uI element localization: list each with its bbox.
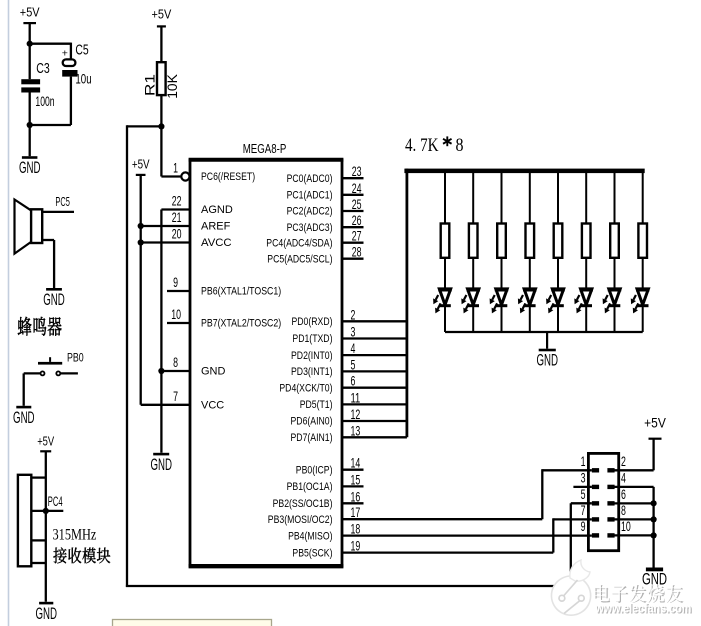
svg-text:21: 21 [172,209,182,225]
MCU pin3 PD1(TXD) to LED bus [342,337,407,339]
wire buzzer to PC5 [42,211,74,213]
switch S1 actuator [38,362,62,365]
MCU pin15 PB1(OC1A) [342,485,364,487]
MCU pin26 PC3(ADC3) [342,226,364,228]
svg-text:22: 22 [172,193,182,209]
svg-text:GND: GND [43,291,65,309]
svg-text:100n: 100n [35,93,54,109]
node reset [158,123,164,129]
MCU pin19 PB5(SCK) [342,551,553,553]
svg-text:GND: GND [201,366,225,378]
MCU pin18 PB4(MISO) [342,534,592,536]
capacitor C5 [63,59,76,66]
svg-text:23: 23 [352,163,362,179]
svg-text:7: 7 [581,502,586,518]
svg-text:AREF: AREF [201,221,231,233]
svg-text:C3: C3 [36,60,50,77]
wire pin6 to gnd rail [614,502,653,504]
svg-text:PB6(XTAL1/TOSC1): PB6(XTAL1/TOSC1) [201,286,281,298]
svg-text:MEGA8-P: MEGA8-P [243,142,287,156]
wire switch to PB0 [60,372,78,374]
svg-text:3: 3 [351,324,356,340]
node PC4 [43,508,49,514]
MCU pin25 PC2(ADC2) [342,210,364,212]
ground (buzzer) [46,288,62,291]
connector pads row 1 [592,468,599,472]
svg-text:+5V: +5V [644,414,666,430]
MCU pin4 PD2(INT0) to LED bus [342,354,407,356]
wire pin8 to gnd rail [614,518,653,520]
svg-text:PD7(AIN1): PD7(AIN1) [291,432,333,444]
svg-text:4. 7K: 4. 7K [405,135,439,156]
wire +5V to C3 [29,23,31,79]
node pin6 [651,500,657,506]
svg-text:GND: GND [13,409,35,427]
svg-text:PC2(ADC2): PC2(ADC2) [287,206,333,218]
svg-text:13: 13 [351,422,361,438]
module 315MHz body [18,475,31,567]
ground (switch) [16,406,31,409]
MCU pin11 PD5(T1) to LED bus [342,403,407,405]
svg-text:PD5(T1): PD5(T1) [300,399,333,411]
svg-text:+5V: +5V [152,8,172,22]
resistor+LED branch 4 [529,173,531,224]
svg-text:17: 17 [351,504,361,520]
capacitor C3 [21,79,40,84]
bubble MCU pin1 [181,172,189,180]
svg-text:9: 9 [173,274,178,290]
MCU pin13 PD7(AIN1) to LED bus [342,436,407,438]
module pin1 stub [31,476,46,478]
svg-text:PC1(ADC1): PC1(ADC1) [287,190,333,202]
ground (ISP) [646,568,663,572]
wire buzzer to ground [42,239,54,241]
connector pads row 2 [592,485,599,489]
switch S1 contacts [41,371,45,375]
IC U1 MEGA8-P body [190,160,342,566]
svg-text:2: 2 [621,453,626,469]
watermark text [596,585,611,602]
node AVCC [138,239,144,245]
module pin3 stub [31,539,46,541]
wire +5V to pin2 [652,439,654,471]
svg-text:PB1(OC1A): PB1(OC1A) [287,481,333,493]
connector pads row 5 [592,533,599,537]
MCU pin17 PB3(MOSI/OC2) [342,518,542,520]
module pin4 stub [31,562,46,564]
ground (MCU) [153,453,169,456]
svg-text:24: 24 [352,180,362,196]
LED bus top bar [404,169,644,174]
svg-text:PC5: PC5 [55,194,70,209]
svg-text:+5V: +5V [132,157,150,172]
wire AGND rail [160,210,162,453]
svg-text:PB0(ICP): PB0(ICP) [296,464,333,476]
svg-text:GND: GND [642,571,667,589]
node filter top [27,41,33,47]
bottom yellow banner [113,620,272,626]
wire +5V rail [140,175,142,405]
node GND rail [158,368,164,374]
svg-text:VCC: VCC [201,400,224,412]
resistor+LED branch 1 [444,173,446,224]
svg-text:PC5(ADC5/SCL): PC5(ADC5/SCL) [267,253,332,265]
svg-text:PD4(XCK/T0): PD4(XCK/T0) [279,382,332,394]
MCU pin7 VCC [141,404,190,406]
resistor+LED branch 7 [614,173,616,224]
MCU pin14 PB0(ICP) [342,469,364,471]
MCU pin9 XTAL1 [167,290,190,292]
MCU pin2 PD0(RXD) to LED bus [342,320,407,322]
wire reset to ISP pin5 [127,125,161,127]
svg-text:10u: 10u [75,71,91,87]
MCU pin22 AGND [161,208,190,210]
wire C5 to bottom node [70,77,72,125]
resistor+LED branch 8 [642,173,644,224]
svg-text:10K: 10K [164,74,180,99]
svg-text:PC6(/RESET): PC6(/RESET) [201,171,255,183]
svg-text:14: 14 [351,455,361,471]
svg-text:PB3(MOSI/OC2): PB3(MOSI/OC2) [268,514,333,526]
svg-text:6: 6 [351,373,356,389]
MCU pin12 PD6(AIN0) to LED bus [342,420,407,422]
svg-text:28: 28 [352,244,362,260]
connector pads row 4 [592,517,599,521]
label 接收模块 [53,547,66,563]
svg-text:+5V: +5V [37,435,54,449]
wire +5V to R1 [160,26,162,62]
svg-text:27: 27 [352,228,362,244]
svg-text:PB2(SS/OC1B): PB2(SS/OC1B) [273,498,333,510]
svg-text:16: 16 [351,488,361,504]
wire pin3 stub [573,486,592,488]
MCU pin10 XTAL2 [167,322,190,324]
svg-text:PB0: PB0 [67,352,84,364]
svg-text:315MHz: 315MHz [53,527,97,544]
label 蜂鸣器 [18,317,32,336]
svg-text:5: 5 [351,356,356,372]
svg-text:3: 3 [581,470,586,486]
svg-text:+: + [62,48,68,60]
svg-text:PD3(INT1): PD3(INT1) [291,366,333,378]
wire pin4 to gnd rail [614,486,653,488]
svg-text:PB5(SCK): PB5(SCK) [292,547,332,559]
resistor+LED branch 5 [557,173,559,224]
svg-text:6: 6 [621,486,626,502]
svg-text:R1: R1 [141,74,157,96]
wire rail to ground [546,332,548,349]
svg-text:PD0(RXD): PD0(RXD) [292,316,333,328]
svg-text:PC0(ADC0): PC0(ADC0) [287,173,333,185]
svg-text:10: 10 [171,306,181,322]
wire switch to ground [24,372,41,374]
page left border [8,0,10,626]
wire RESET to pin5 [571,502,592,504]
MCU pin28 PC5(ADC5/SCL) [342,258,364,260]
svg-text:GND: GND [150,456,172,474]
wire R1 to node [160,95,162,126]
svg-text:PC4: PC4 [48,494,63,509]
wire SCK to pin7 [553,518,592,520]
svg-text:2: 2 [351,306,356,322]
MCU pin6 PD4(XCK/T0) to LED bus [342,387,407,389]
svg-text:PB4(MISO): PB4(MISO) [288,530,332,542]
ground (filter) [22,156,38,159]
svg-text:PB7(XTAL2/TOSC2): PB7(XTAL2/TOSC2) [201,318,281,330]
svg-text:7: 7 [173,388,178,404]
svg-text:26: 26 [352,212,362,228]
svg-text:www.elecfans.com: www.elecfans.com [595,602,692,616]
svg-text:25: 25 [352,196,362,212]
svg-text:PC4(ADC4/SDA): PC4(ADC4/SDA) [266,237,332,249]
node pin10 [651,532,657,538]
module pin2 PC4 [31,510,63,512]
svg-text:GND: GND [35,605,57,623]
MCU pin23 PC0(ADC0) [342,177,364,179]
svg-text:15: 15 [351,471,361,487]
ground (LED rail) [539,349,556,352]
wire reset to MCU pin1 [160,126,162,176]
node AREF [138,223,144,229]
svg-text:+5V: +5V [20,5,40,19]
MCU pin21 AREF [141,225,190,227]
svg-text:1: 1 [581,453,586,469]
svg-text:GND: GND [19,159,41,177]
wire MOSI to pin1 [542,469,592,471]
svg-text:PD1(TXD): PD1(TXD) [292,333,332,345]
wire node to C5 [29,43,71,45]
svg-text:12: 12 [351,406,361,422]
wire C3 to bottom node [29,93,31,157]
resistor+LED branch 3 [501,173,503,224]
resistor+LED branch 6 [585,173,587,224]
svg-text:20: 20 [172,226,182,242]
MCU pin5 PD3(INT1) to LED bus [342,370,407,372]
svg-text:8: 8 [173,354,178,370]
resistor+LED branch 2 [472,173,474,224]
wire pin10 to gnd rail [614,534,653,536]
MCU pin8 GND [161,370,190,372]
svg-text:18: 18 [351,521,361,537]
MCU pin27 PC4(ADC4/SDA) [342,242,364,244]
buzzer LS1 [31,209,42,243]
svg-text:19: 19 [351,538,361,554]
connector J1 body [588,453,618,550]
svg-text:AVCC: AVCC [201,237,232,249]
svg-text:1: 1 [173,160,178,176]
svg-text:PC3(ADC3): PC3(ADC3) [287,222,333,234]
node filter bottom [27,122,33,128]
MCU pin16 PB2(SS/OC1B) [342,502,364,504]
svg-text:11: 11 [351,389,361,405]
ground (module) [39,602,53,605]
svg-text:5: 5 [581,486,586,502]
svg-text:C5: C5 [75,42,88,59]
watermark logo [551,576,590,615]
svg-text:AGND: AGND [201,204,233,216]
wire module rail [45,451,47,602]
svg-text:4: 4 [621,470,626,486]
svg-text:PD2(INT0): PD2(INT0) [291,350,333,362]
LED bus vertical [405,169,408,438]
connector pads row 3 [592,501,599,505]
MCU pin24 PC1(ADC1) [342,194,364,196]
MCU pin20 AVCC [141,241,190,243]
svg-text:PD6(AIN0): PD6(AIN0) [291,416,333,428]
LED cathode rail [445,331,643,333]
node pin8 [651,516,657,522]
svg-text:4: 4 [351,340,356,356]
svg-text:GND: GND [536,352,558,370]
resistor R1 [157,62,166,95]
svg-text:8: 8 [456,135,464,156]
